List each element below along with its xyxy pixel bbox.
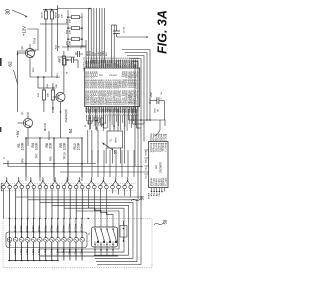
svg-text:MODE: MODE bbox=[146, 149, 148, 155]
power label +5V right bbox=[149, 91, 153, 104]
resistor row R1 R4 R8 R9 R10 bbox=[17, 138, 82, 181]
wire Q3 emitter bbox=[29, 58, 31, 77]
svg-text:10K: 10K bbox=[69, 30, 71, 34]
svg-text:A2x: A2x bbox=[155, 193, 158, 196]
IC U2 top labels bbox=[150, 133, 168, 141]
wire Q2 collector bbox=[63, 77, 65, 93]
svg-text:100K: 100K bbox=[77, 142, 81, 151]
label R21 bbox=[56, 44, 61, 49]
wire bbox=[129, 109, 136, 120]
svg-text:L4xx: L4xx bbox=[31, 248, 35, 255]
wire bbox=[137, 109, 141, 128]
svg-text:L5xx: L5xx bbox=[37, 248, 41, 255]
label C7 bbox=[97, 121, 108, 131]
svg-text:A0x: A0x bbox=[150, 193, 153, 196]
svg-text:50: 50 bbox=[137, 58, 139, 60]
node dots under U1 bbox=[89, 117, 115, 127]
capacitor C8 bbox=[150, 91, 165, 120]
svg-text:K3xx: K3xx bbox=[25, 225, 29, 232]
svg-text:C5: C5 bbox=[85, 125, 87, 127]
wire Q3 collector bbox=[17, 44, 30, 55]
wire board bottom bus bbox=[8, 260, 59, 262]
wire Q1 emitter bbox=[27, 128, 29, 140]
resistor R18 bbox=[66, 16, 82, 24]
svg-text:100K: 100K bbox=[63, 142, 67, 151]
svg-text:L3xx: L3xx bbox=[25, 248, 29, 255]
output board dashed outline bbox=[3, 219, 152, 268]
IC U1 bottom pin labels bbox=[84, 107, 139, 113]
svg-text:20K: 20K bbox=[49, 142, 53, 149]
wire bbox=[111, 25, 113, 64]
svg-text:10K: 10K bbox=[69, 19, 71, 23]
relay strip box bbox=[6, 232, 87, 248]
switch lower marks bbox=[97, 245, 111, 247]
wire bus vertical bbox=[146, 70, 148, 120]
svg-text:DS/STR: DS/STR bbox=[135, 79, 139, 89]
svg-text:GNDq: GNDq bbox=[84, 62, 86, 67]
wire U1 outputs down bbox=[88, 109, 125, 164]
wire relay columns bbox=[10, 219, 82, 261]
resistor R6 4.7K bbox=[45, 122, 49, 140]
svg-text:K12xx: K12xx bbox=[80, 223, 84, 231]
svg-text:PD0: PD0 bbox=[135, 107, 139, 113]
svg-text:L12xx: L12xx bbox=[80, 248, 84, 256]
svg-text:04: 04 bbox=[97, 245, 99, 247]
svg-text:TP10: TP10 bbox=[63, 152, 67, 159]
svg-text:8MHZ: 8MHZ bbox=[116, 137, 118, 143]
resistor R3 bbox=[50, 10, 57, 78]
svg-text:RXD: RXD bbox=[101, 51, 103, 56]
svg-text:L1xx: L1xx bbox=[13, 248, 17, 255]
reference numeral 62 with leader bbox=[8, 61, 18, 84]
IC U1 inner band 1 bbox=[84, 79, 139, 89]
svg-text:U2: U2 bbox=[154, 165, 158, 169]
svg-text:C4 .1M: C4 .1M bbox=[124, 26, 126, 33]
wire bbox=[30, 76, 60, 78]
svg-text:04: 04 bbox=[109, 245, 111, 247]
power label +12V bbox=[22, 26, 39, 50]
svg-text:R17: R17 bbox=[97, 119, 99, 122]
svg-text:K2xx: K2xx bbox=[19, 225, 23, 232]
svg-text:04: 04 bbox=[103, 245, 105, 247]
svg-text:TP14: TP14 bbox=[34, 37, 37, 44]
svg-text:+12V: +12V bbox=[22, 26, 27, 36]
svg-text:1: 1 bbox=[7, 178, 8, 180]
svg-text:K8xx: K8xx bbox=[55, 225, 59, 232]
IC U2 body bbox=[149, 142, 169, 188]
capacitor C6 bbox=[93, 109, 100, 130]
svg-text:4: 4 bbox=[43, 178, 44, 180]
wire Q1 collector bbox=[27, 112, 29, 118]
svg-text:100K: 100K bbox=[35, 142, 39, 151]
IC U1 inner band 2 bbox=[84, 90, 139, 98]
resistor R17 bbox=[97, 118, 103, 125]
wire bbox=[113, 25, 115, 64]
wire staircase bus right and bottom bbox=[16, 197, 141, 265]
svg-text:11: 11 bbox=[127, 178, 129, 180]
svg-text:100K: 100K bbox=[21, 142, 25, 151]
wire stubs below U1 bbox=[86, 115, 137, 131]
wire top node bbox=[43, 5, 58, 10]
svg-text:SCLupx: SCLupx bbox=[165, 177, 168, 186]
wire strip outputs straight down bbox=[4, 189, 83, 219]
connector strip left bracket bbox=[1, 183, 3, 191]
wire Q3 base bbox=[18, 52, 28, 54]
IC U2 left pin labels bbox=[146, 149, 148, 178]
svg-text:L9xx: L9xx bbox=[61, 248, 65, 255]
wire bbox=[57, 10, 59, 52]
IC U1 top pin numbers bbox=[86, 58, 139, 60]
svg-text:9: 9 bbox=[103, 178, 104, 180]
svg-text:3: 3 bbox=[31, 178, 32, 180]
svg-text:VSSw: VSSw bbox=[135, 90, 139, 97]
capacitor C5 bbox=[85, 109, 93, 130]
wire bbox=[33, 67, 54, 89]
svg-text:K6xx: K6xx bbox=[43, 225, 47, 232]
svg-text:K5xx: K5xx bbox=[37, 225, 41, 232]
wire ladder right rail bbox=[81, 13, 83, 47]
wire bus vertical bbox=[135, 70, 138, 200]
svg-text:(72: (72 bbox=[8, 241, 12, 245]
svg-text:L8xx: L8xx bbox=[55, 248, 59, 255]
reference numeral 55 with leader bbox=[102, 143, 117, 154]
wire node bbox=[135, 119, 166, 121]
svg-text:L10xx: L10xx bbox=[67, 248, 71, 256]
resistor R12 bbox=[59, 51, 70, 77]
transistor Q1 bbox=[21, 111, 33, 128]
capacitor C2 bbox=[66, 51, 78, 68]
svg-text:K10xx: K10xx bbox=[67, 223, 71, 231]
svg-text:K9xx: K9xx bbox=[61, 225, 65, 232]
label R22 bbox=[59, 13, 64, 18]
IC U1 body bbox=[85, 68, 140, 107]
svg-text:TXD: TXD bbox=[98, 51, 100, 56]
switch box lower stubs bbox=[94, 247, 113, 256]
relay coils bbox=[7, 237, 84, 242]
transistor Q3 bbox=[21, 46, 35, 58]
svg-text:2N2222(M): 2N2222(M) bbox=[64, 109, 68, 122]
wire bbox=[62, 46, 86, 48]
connector stub J2 bbox=[3, 156, 8, 166]
reference numeral 58 with leader bbox=[154, 219, 168, 225]
svg-text:L7xx: L7xx bbox=[49, 248, 53, 255]
svg-text:+5V: +5V bbox=[149, 91, 153, 98]
svg-text:K11xx: K11xx bbox=[74, 223, 78, 231]
svg-text:R6 4.7K: R6 4.7K bbox=[45, 122, 47, 131]
wire labels column bbox=[83, 57, 86, 71]
svg-text:MISO: MISO bbox=[87, 50, 89, 56]
dotted leader bbox=[50, 8, 56, 18]
svg-text:+5Vq: +5Vq bbox=[84, 57, 86, 61]
svg-text:TP7: TP7 bbox=[35, 153, 39, 159]
scan artifact bbox=[0, 127, 1, 132]
wire bbox=[67, 40, 86, 64]
wire last contacts stubs bbox=[113, 189, 131, 197]
resistor R20 bbox=[66, 38, 82, 46]
IC U1 top pins bbox=[86, 60, 137, 69]
wire bus vertical bbox=[140, 70, 142, 197]
IC U2 inner bottom band bbox=[150, 177, 168, 187]
svg-text:20K: 20K bbox=[48, 93, 50, 97]
IC U1 top pin labels bbox=[84, 60, 139, 68]
svg-text:L11xx: L11xx bbox=[74, 248, 78, 256]
connector strip dotted guides bbox=[2, 183, 137, 191]
svg-text:TP15: TP15 bbox=[33, 67, 35, 73]
svg-text:TP13: TP13 bbox=[57, 73, 59, 79]
resistor R2 bbox=[42, 10, 48, 73]
wire Q2 emitter bbox=[60, 102, 61, 138]
svg-text:62: 62 bbox=[8, 61, 14, 67]
wire bus vertical bbox=[149, 70, 151, 103]
wire bbox=[160, 120, 165, 130]
svg-text:CLKinxp: CLKinxp bbox=[165, 142, 168, 152]
IC U2 bottom pin labels bbox=[149, 192, 161, 199]
IC U1 label bbox=[99, 74, 117, 77]
svg-text:58: 58 bbox=[163, 219, 168, 224]
svg-text:10K: 10K bbox=[62, 14, 64, 18]
IC U1 inner band 3 bbox=[84, 96, 139, 105]
svg-text:FIG. 3A: FIG. 3A bbox=[156, 10, 170, 54]
connector strip pair junctions bbox=[4, 177, 131, 185]
wire bus vertical bbox=[143, 70, 145, 142]
resistor R19 bbox=[66, 27, 82, 35]
wire Q2 base bbox=[53, 96, 58, 98]
svg-text:17SC8979: 17SC8979 bbox=[160, 162, 163, 174]
IC U1 bottom pin numbers bbox=[86, 114, 139, 116]
wire bbox=[103, 109, 107, 128]
resistor R14 bbox=[60, 59, 67, 66]
transistor Q2 bbox=[53, 86, 65, 102]
wire long horizontal bbox=[60, 171, 149, 173]
relay labels bottom bbox=[13, 248, 84, 256]
connector strip contacts bbox=[2, 185, 133, 189]
svg-text:56: 56 bbox=[140, 195, 145, 200]
svg-text:5: 5 bbox=[55, 178, 56, 180]
svg-text:OC1xc: OC1xc bbox=[135, 96, 139, 105]
svg-text:TP19: TP19 bbox=[51, 106, 55, 113]
relay labels top bbox=[13, 223, 84, 238]
svg-text:7: 7 bbox=[79, 178, 80, 180]
svg-text:20K: 20K bbox=[56, 84, 58, 88]
wire bbox=[133, 109, 144, 124]
svg-text:TP9: TP9 bbox=[49, 156, 53, 162]
svg-text:CSx: CSx bbox=[159, 193, 161, 197]
svg-text:+5V: +5V bbox=[16, 130, 20, 137]
wire feeds into connector strip bbox=[26, 138, 134, 177]
svg-text:MOSI: MOSI bbox=[90, 50, 92, 56]
svg-text:55: 55 bbox=[114, 150, 118, 154]
wire board bus 2 bbox=[40, 255, 118, 257]
wire long horizontal bbox=[8, 166, 143, 168]
wire bbox=[56, 23, 68, 25]
IC U1 inner band 0 bbox=[84, 71, 139, 79]
wire bus corners upper right bbox=[122, 50, 150, 71]
svg-text:K7xx: K7xx bbox=[49, 225, 53, 232]
svg-text:54: 54 bbox=[68, 128, 73, 133]
svg-text:K1xx: K1xx bbox=[13, 225, 17, 232]
svg-text:IC2w: IC2w bbox=[95, 71, 99, 77]
switch contacts bbox=[94, 228, 117, 247]
resistor R11 bbox=[38, 76, 50, 112]
svg-text:10K: 10K bbox=[69, 41, 71, 45]
wire curve into U2 bbox=[155, 130, 160, 136]
svg-text:IRQ: IRQ bbox=[106, 52, 108, 56]
IC U1 bottom pins bbox=[86, 107, 137, 114]
capacitor C4 bbox=[112, 25, 148, 38]
svg-text:RXD: RXD bbox=[146, 158, 148, 163]
svg-text:R14: R14 bbox=[60, 59, 62, 62]
wire bus to U1 top bbox=[58, 8, 105, 64]
reference numeral 56 with leader bbox=[131, 195, 145, 201]
bus wire labels bbox=[87, 50, 108, 56]
resistor R26 bbox=[150, 103, 160, 120]
wire bbox=[27, 140, 29, 146]
svg-text:Y9CA11: Y9CA11 bbox=[109, 74, 118, 77]
IC U2 inner top band bbox=[150, 142, 168, 152]
switch box bbox=[92, 227, 118, 247]
svg-text:SCK: SCK bbox=[92, 51, 94, 56]
wire bbox=[58, 56, 76, 58]
svg-text:XIRQ: XIRQ bbox=[103, 51, 105, 56]
capacitor C3 bbox=[75, 46, 83, 57]
node dots on board edge bbox=[9, 218, 89, 219]
svg-text:8: 8 bbox=[91, 178, 92, 180]
svg-text:10: 10 bbox=[115, 178, 117, 180]
svg-text:R2 1K: R2 1K bbox=[42, 12, 44, 18]
IC U2 left pins bbox=[145, 150, 149, 174]
sense box bbox=[120, 221, 127, 242]
svg-text:TXD: TXD bbox=[146, 166, 148, 170]
wire crystal connections bbox=[110, 109, 118, 131]
svg-text:VCAq: VCAq bbox=[83, 67, 86, 72]
svg-text:L2xx: L2xx bbox=[19, 248, 23, 255]
svg-text:TP6: TP6 bbox=[21, 158, 25, 164]
wire horizontal node row bbox=[8, 163, 96, 165]
svg-text:L6xx: L6xx bbox=[43, 248, 47, 255]
wire Q1 base bbox=[18, 122, 26, 124]
wire bbox=[40, 23, 56, 25]
reference numeral 30 with leader arrow bbox=[6, 9, 28, 18]
svg-text:PD0/R: PD0/R bbox=[135, 60, 139, 68]
crystal Y1 box bbox=[107, 131, 123, 148]
svg-text:K4xx: K4xx bbox=[31, 225, 35, 232]
scan artifact bbox=[0, 58, 2, 66]
wire ladder left rail bbox=[67, 10, 69, 51]
wire feeds to switch box bbox=[88, 189, 113, 227]
IC U2 bottom pins bbox=[151, 188, 165, 193]
svg-text:6: 6 bbox=[67, 178, 68, 180]
resistor R13 bbox=[47, 83, 58, 110]
IC U2 label bbox=[154, 162, 163, 174]
function box 62 outline bbox=[18, 51, 37, 112]
svg-text:30: 30 bbox=[6, 9, 12, 15]
svg-text:CLKxp: CLKxp bbox=[165, 133, 168, 141]
svg-text:A1x: A1x bbox=[153, 193, 156, 196]
svg-text:2: 2 bbox=[19, 178, 20, 180]
svg-text:VSSw: VSSw bbox=[135, 71, 139, 78]
